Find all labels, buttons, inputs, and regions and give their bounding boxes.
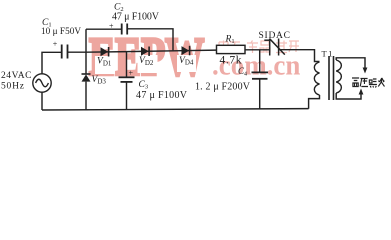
- svg-text:47 μ F100V: 47 μ F100V: [136, 90, 188, 101]
- wire secondary top output with arrow: [336, 58, 367, 74]
- wire C1 to junction: [68, 51, 87, 53]
- svg-text:+: +: [109, 22, 114, 31]
- wire C2 top line left: [86, 28, 122, 30]
- wire T1 primary return: [309, 95, 320, 109]
- wire source top to C1: [42, 52, 62, 74]
- diode VD4: [182, 46, 190, 56]
- label chinese high voltage ignition: [352, 78, 384, 88]
- transformer T1 primary: [314, 62, 319, 95]
- wire C2 top line right: [127, 29, 173, 51]
- wire SIDAC to T1: [279, 50, 320, 62]
- capacitor C2: [122, 24, 128, 35]
- SIDAC symbol: [264, 39, 285, 56]
- white label boxes: [95, 55, 196, 74]
- svg-text:SIDAC: SIDAC: [259, 31, 291, 41]
- diode VD3: [82, 74, 91, 110]
- watermark .com.cn: [212, 50, 301, 82]
- diode VD1: [101, 47, 109, 57]
- resistor R1: [217, 45, 246, 53]
- svg-text:1. 2 μ F200V: 1. 2 μ F200V: [195, 82, 251, 93]
- wire R1 to SIDAC: [245, 49, 270, 51]
- capacitor C3: [119, 51, 135, 109]
- wire source bottom: [41, 92, 43, 110]
- capacitor C1: [62, 45, 68, 59]
- main rail: [86, 50, 217, 52]
- wire secondary bottom output with arrow: [336, 89, 363, 100]
- diode VD2: [141, 47, 149, 57]
- svg-text:4.7k: 4.7k: [220, 55, 242, 67]
- AC source 24VAC 50Hz: [33, 74, 51, 92]
- watermark chinese text 电子产品世界: [219, 41, 299, 54]
- bottom rail: [42, 109, 309, 110]
- svg-text:50Hz: 50Hz: [1, 82, 24, 92]
- svg-text:+: +: [129, 69, 134, 78]
- svg-text:47 μ F100V: 47 μ F100V: [112, 12, 160, 23]
- svg-text:+: +: [53, 39, 58, 48]
- wire junction vertical: [85, 29, 87, 74]
- svg-text:10 μ F50V: 10 μ F50V: [41, 26, 81, 36]
- transformer T1 secondary: [336, 60, 341, 93]
- watermark EEPW logo: [89, 28, 204, 88]
- capacitor C4: [252, 50, 269, 109]
- transformer core: [329, 56, 334, 100]
- svg-text:24VAC: 24VAC: [1, 71, 32, 81]
